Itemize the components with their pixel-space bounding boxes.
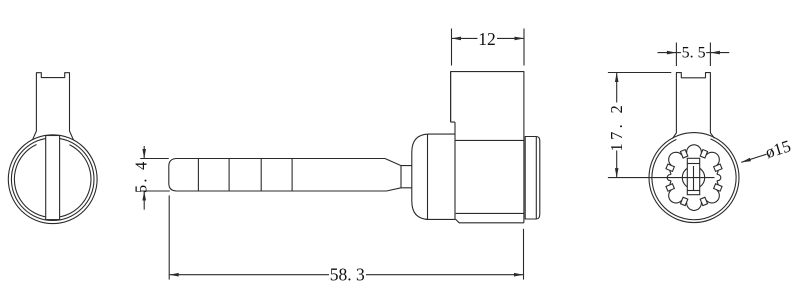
upper stem left edge	[450, 72, 452, 123]
ext line left of 5.5	[675, 43, 677, 67]
shaft groove line 2	[228, 159, 230, 192]
svg-text:17. 2: 17. 2	[607, 102, 626, 152]
ext line right of 58.3	[523, 229, 525, 280]
shaft groove line 4	[291, 159, 293, 192]
bottom plate outline	[456, 219, 524, 222]
ext line top of 17.2	[608, 72, 671, 74]
rear outer circle	[649, 133, 739, 223]
horizontal center line / ext line	[608, 177, 715, 179]
leader arrow (dia15)	[741, 158, 751, 163]
arrow tail top 5.4	[143, 146, 145, 159]
dim line 58.3 left part	[169, 274, 329, 276]
ext line bottom of 5.4	[140, 190, 170, 192]
ext line right of 5.5	[709, 43, 711, 67]
knob middle circle	[11, 138, 94, 221]
dome separator line	[427, 134, 429, 219]
ext line left of 58.3	[168, 195, 170, 279]
knob grip bar	[46, 136, 60, 220]
arrow bottom (17.2)	[615, 168, 619, 178]
dim line 5.5 left stub	[676, 52, 681, 54]
arrow tail right 5.5	[710, 52, 729, 54]
left view: key front view	[8, 73, 97, 224]
ext line left of 12	[451, 29, 453, 66]
dim line 58.3 right part	[366, 274, 524, 276]
dim line 17.2 lower part	[616, 151, 618, 178]
key slot rectangle	[687, 158, 699, 194]
arrow right (12)	[515, 37, 525, 41]
arrow left (12)	[452, 37, 462, 41]
arrow bottom (5.4)	[142, 191, 146, 201]
body bottom edge left segment	[426, 218, 456, 220]
barrel bottom inner line	[456, 212, 524, 214]
rear inner ring (arc hidden behind stem)	[652, 139, 736, 220]
body top edge left segment	[428, 133, 455, 135]
slot inner line bottom	[687, 190, 699, 192]
knob inner circle (arc hidden behind shank)	[14, 145, 91, 218]
slot inner line top	[687, 163, 699, 165]
upper stem outline	[451, 72, 524, 137]
flange face line	[535, 137, 537, 220]
middle view: lock side view	[131, 29, 540, 285]
slot center vertical line	[693, 166, 695, 191]
body dome cap outline	[412, 134, 429, 219]
svg-text:ø15: ø15	[763, 136, 793, 162]
radial slot rectangles on star wheel	[714, 164, 722, 171]
ext line top of 5.4	[140, 158, 169, 160]
ext line right of 12	[523, 29, 525, 66]
key shaft side outline	[169, 159, 401, 192]
rear stem with notched tip	[673, 73, 715, 139]
shaft groove line 3	[260, 159, 262, 192]
arrow right (58.3)	[514, 273, 524, 277]
arrow right (5.5)	[710, 51, 720, 55]
rear flange outline	[525, 137, 540, 220]
arrow left (5.5)	[667, 51, 677, 55]
knob outer circle	[8, 135, 97, 224]
arrow tail bottom 5.4	[143, 191, 145, 210]
dim line 12 left part	[452, 37, 478, 39]
slab left edge	[454, 122, 456, 219]
slab right edge	[523, 137, 525, 223]
cam gear / star wheel	[667, 145, 721, 211]
dim line 17.2 upper part	[616, 73, 618, 103]
arrow top (17.2)	[615, 73, 619, 83]
dim line 12 right part	[497, 37, 524, 39]
barrel top inner line	[455, 139, 524, 141]
dim line 5.5 right stub	[706, 52, 710, 54]
central boss circle	[682, 166, 704, 188]
leader line (dia15)	[741, 154, 766, 162]
svg-text:58. 3: 58. 3	[330, 264, 365, 284]
arrow left (58.3)	[169, 273, 179, 277]
svg-text:12: 12	[478, 29, 496, 49]
key shank (left view) with notched tip	[33, 73, 74, 140]
shaft groove line 1	[197, 159, 199, 192]
shaft neck	[401, 166, 412, 188]
arrow top (5.4)	[142, 149, 146, 159]
svg-text:5. 5: 5. 5	[682, 45, 706, 62]
arrow tail left 5.5	[658, 52, 677, 54]
right view: rear view	[607, 43, 793, 223]
svg-text:5. 4: 5. 4	[131, 160, 150, 194]
